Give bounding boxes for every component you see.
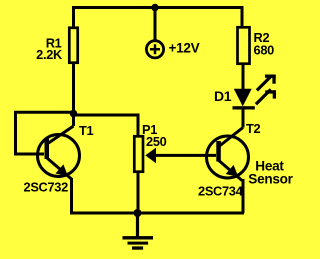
svg-text:250: 250	[146, 134, 167, 149]
wire R1 bottom to T1 collector	[72, 62, 75, 126]
wire D1 to T2 collector	[242, 109, 245, 128]
node ground rail junction	[134, 209, 142, 217]
ground	[123, 213, 154, 250]
resistor R2	[238, 27, 250, 63]
svg-text:Sensor: Sensor	[248, 172, 293, 187]
power +12V source symbol	[146, 41, 163, 58]
resistor R1	[69, 28, 77, 63]
node T1 collector junction	[70, 110, 78, 118]
svg-text:T1: T1	[79, 123, 94, 138]
transistor T2	[207, 128, 249, 181]
svg-text:+12V: +12V	[169, 41, 200, 56]
LED light arrow upper	[257, 75, 276, 91]
svg-text:2SC734: 2SC734	[198, 184, 244, 199]
svg-text:D1: D1	[214, 88, 232, 104]
svg-text:2SC732: 2SC732	[24, 179, 69, 194]
wire P1 bottom to ground rail	[137, 172, 140, 213]
wire feedback loop (junction to T1 base)	[16, 112, 74, 154]
potentiometer P1	[134, 136, 143, 171]
svg-text:2.2K: 2.2K	[36, 47, 63, 62]
diode D1 LED	[233, 89, 255, 110]
node +12V junction	[151, 4, 158, 11]
wire junction to P1 top	[74, 115, 139, 136]
LED light arrow lower	[256, 89, 276, 104]
wire R2 bottom to D1	[242, 63, 245, 90]
svg-text:T2: T2	[246, 121, 261, 136]
transistor T1	[38, 126, 80, 180]
label P1 value	[142, 122, 167, 149]
wire +12V tap	[154, 8, 157, 42]
wire T2 emitter to ground rail	[242, 179, 245, 213]
P1 wiper arrow	[145, 148, 216, 164]
label R1 value	[36, 36, 63, 63]
wire top rail	[74, 8, 243, 27]
wire T1 emitter to ground rail	[72, 178, 245, 213]
label R2 value	[254, 30, 275, 58]
label Heat Sensor	[248, 159, 293, 187]
svg-text:680: 680	[254, 43, 275, 58]
